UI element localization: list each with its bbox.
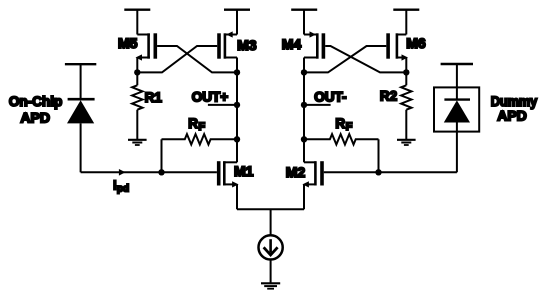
wire M4 drain to node [303, 58, 305, 73]
resistor RF feedback left [162, 116, 238, 173]
resistor RF feedback right [304, 116, 379, 173]
wire dummy APD down to M2 gate line [456, 123, 458, 173]
node M5 drain [134, 69, 140, 75]
wire M5 drain to node [136, 58, 138, 73]
supply bar above M3 [224, 10, 250, 35]
wire M2 source down [303, 184, 305, 209]
label Dummy APD [491, 93, 538, 124]
svg-text:M5: M5 [118, 35, 138, 51]
node RF left at OUT+ [234, 136, 240, 142]
wire M3 drain to node [236, 58, 238, 73]
node OUT+ tap [234, 102, 240, 108]
wire tail stem to current source [270, 209, 272, 235]
wire M6 gate cross-coupling to M4 drain node [304, 46, 386, 72]
wire tail horizontal [237, 208, 304, 210]
transistor M1 [217, 161, 254, 187]
svg-text:M1: M1 [234, 163, 254, 179]
supply bar above on-chip APD [65, 64, 96, 99]
svg-text:APD: APD [20, 110, 50, 126]
svg-text:M2: M2 [286, 164, 306, 180]
svg-text:F: F [198, 121, 205, 133]
current source tail [259, 235, 283, 259]
svg-text:pd: pd [117, 183, 129, 194]
wire input line ipd to M1 gate [81, 171, 217, 173]
label OUT- with tap line [304, 90, 347, 105]
label OUT+ with tap line [192, 90, 237, 105]
node RF left at input line [158, 169, 164, 175]
transistor M2 [286, 161, 324, 187]
wire M1 source down [236, 184, 238, 209]
node RF right at OUT- [301, 136, 307, 142]
label ipd [113, 180, 129, 194]
svg-text:R: R [335, 116, 345, 131]
node M4 drain / OUT- [301, 69, 307, 75]
svg-text:R1: R1 [145, 90, 163, 105]
photodiode dummy APD [444, 100, 470, 123]
transistor M6 [386, 33, 426, 60]
ground below R1 [128, 110, 147, 145]
transistor M3 [217, 31, 257, 58]
supply bar above dummy APD [441, 64, 473, 100]
wire M3 gate cross-coupling to M5 drain node [137, 46, 217, 72]
transistor M4 [282, 31, 325, 58]
ground below current source [261, 283, 280, 288]
box around dummy APD [434, 87, 479, 131]
resistor R1 [132, 72, 162, 109]
resistor R2 [380, 72, 412, 109]
node RF right at M2 gate line [375, 169, 381, 175]
svg-text:R2: R2 [380, 88, 397, 103]
svg-text:On-Chip: On-Chip [9, 93, 63, 109]
transistor M5 [118, 33, 157, 60]
supply bar above M6 [393, 10, 419, 35]
svg-text:APD: APD [497, 108, 527, 124]
wire OUT- column (M4 drain node down to M2 drain) [303, 72, 305, 162]
ground below R2 [397, 110, 416, 145]
wire M6 drain to node [405, 58, 407, 73]
svg-text:OUT+: OUT+ [192, 90, 228, 105]
wire on-chip APD down to input line [80, 123, 82, 172]
supply bar above M5 [124, 10, 150, 35]
svg-text:M4: M4 [282, 36, 302, 52]
wire M5 gate cross-coupling to M3 drain node [157, 46, 237, 72]
node M3 drain / OUT+ [234, 69, 240, 75]
svg-text:M6: M6 [406, 35, 426, 51]
wire OUT+ column (M3 drain node down to M1 drain) [236, 72, 238, 162]
svg-text:OUT-: OUT- [314, 90, 346, 105]
photodiode on-chip APD [67, 99, 95, 123]
svg-text:M3: M3 [237, 37, 257, 53]
wire current source to ground [270, 260, 272, 284]
svg-text:R: R [188, 116, 198, 131]
supply bar above M4 [291, 10, 317, 35]
svg-text:F: F [346, 121, 353, 133]
node M6 drain [403, 69, 409, 75]
label On-Chip APD [9, 93, 63, 125]
node OUT- tap [301, 102, 307, 108]
arrow ipd current direction [119, 169, 126, 176]
wire M2 gate line to dummy APD [324, 171, 457, 173]
wire M4 gate cross-coupling to M6 drain node [325, 46, 406, 72]
